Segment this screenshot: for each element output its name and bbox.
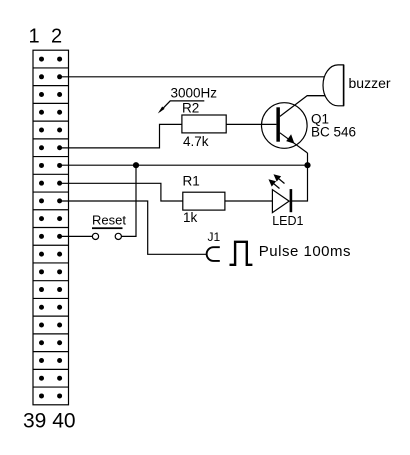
svg-text:3000Hz: 3000Hz (171, 85, 218, 100)
svg-text:2: 2 (51, 25, 62, 47)
svg-text:39 40: 39 40 (23, 410, 76, 433)
svg-text:BC 546: BC 546 (311, 125, 356, 140)
LED1 light arrow 2 (269, 179, 280, 188)
label J1 (208, 230, 221, 244)
buzzer symbol (323, 65, 344, 106)
wire emitter to junction B (307, 153, 309, 165)
wire pin6 to R2 (60, 124, 182, 147)
LED1 light arrow 1 (274, 174, 285, 183)
label LED1 (272, 214, 303, 228)
label BC 546 (311, 125, 356, 140)
wire pin2 to buzzer (60, 76, 325, 78)
label Q1 (311, 112, 329, 127)
svg-text:1k: 1k (183, 210, 198, 225)
label R1 (183, 174, 200, 189)
wire pin9 to J1 (60, 201, 207, 254)
label buzzer (349, 75, 391, 91)
svg-text:4.7k: 4.7k (183, 134, 209, 149)
svg-text:LED1: LED1 (272, 214, 303, 228)
svg-text:buzzer: buzzer (349, 75, 391, 91)
connector J1 symbol (207, 247, 220, 261)
wire rail pin7 (60, 164, 308, 166)
junction node B (304, 162, 310, 168)
pin label 1 (29, 25, 40, 47)
resistor R1 (183, 192, 225, 210)
transistor Q1 collector lead (280, 96, 325, 117)
transistor Q1 emitter lead (280, 133, 308, 153)
svg-text:R2: R2 (182, 101, 199, 116)
pin label 39 40 (23, 410, 76, 433)
switch Reset contact right (115, 233, 121, 239)
label Reset (92, 212, 126, 229)
pulse waveform symbol (230, 242, 253, 265)
annotation 3000Hz (171, 85, 218, 100)
connector header pins (dots) (39, 57, 62, 399)
resistor R2 (182, 115, 226, 133)
svg-text:R1: R1 (183, 174, 200, 189)
wire reset switch to junction A (122, 165, 137, 236)
svg-text:1: 1 (29, 25, 40, 47)
wire collector to buzzer (307, 95, 325, 97)
svg-text:Reset: Reset (92, 212, 126, 227)
label Pulse 100ms (259, 243, 351, 260)
value 1k (183, 210, 198, 225)
wire pin11 to reset switch (60, 235, 92, 237)
transistor Q1 circle (262, 103, 308, 149)
pin label 2 (51, 25, 62, 47)
LED1 triangle (272, 190, 289, 213)
value 4.7k (183, 134, 209, 149)
junction node A (133, 162, 139, 168)
LED1 cathode bar (290, 189, 293, 212)
label R2 (182, 101, 199, 116)
wire LED1 to junction B (291, 165, 308, 201)
transistor Q1 base bar (276, 107, 280, 141)
switch Reset contact left (92, 233, 98, 239)
connector header 40-pin body (33, 50, 69, 405)
wire R2 to Q1 base (226, 123, 276, 125)
annotation arrow (158, 101, 205, 114)
svg-text:Pulse 100ms: Pulse 100ms (259, 243, 351, 260)
svg-text:J1: J1 (208, 230, 221, 244)
wire pin8 to R1 (60, 183, 183, 201)
wire R1 to LED1 (225, 200, 273, 202)
